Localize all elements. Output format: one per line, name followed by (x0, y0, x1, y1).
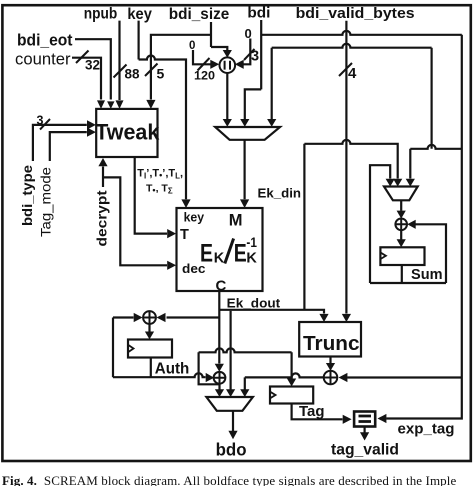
wire key to EK (hops over bdi_size wire) (139, 21, 186, 200)
svg-text:E: E (234, 239, 247, 267)
svg-text:88: 88 (125, 66, 140, 82)
wire bdi_eot to Tweak (75, 39, 111, 99)
wire Ek_dout branch down to bdo mux (230, 311, 232, 390)
slash on 0/120 wire (198, 58, 210, 71)
svg-text:-1: -1 (246, 235, 257, 250)
wire bdi_size: stub, left branch to Tweak, branch to concat (151, 22, 227, 100)
svg-text:bdi_eot: bdi_eot (17, 32, 73, 50)
svg-text:Auth: Auth (155, 360, 190, 377)
slash on bdi_type wire (40, 119, 50, 130)
Tweak box (96, 109, 157, 157)
wire comparator output to tag_valid (364, 427, 366, 433)
svg-text:K: K (246, 251, 257, 267)
svg-text:key: key (184, 211, 205, 225)
wire right vertical (exp_tag) down to comparator and to xor X3 (347, 35, 462, 419)
register Tag (270, 387, 313, 404)
wire decrypt up into Tweak bottom (102, 167, 104, 188)
svg-text:Tweak: Tweak (95, 120, 160, 145)
slash on npub wire (114, 65, 127, 78)
svg-text:Fig. 4. SCREAM block diagram.: Fig. 4. SCREAM block diagram. All boldfa… (2, 473, 456, 486)
Trunc box (299, 322, 361, 357)
wire decrypt branch to EK dec input (103, 177, 167, 265)
xor X3 (324, 371, 338, 385)
wire bdi_valid_bytes horizontal distribution (272, 44, 432, 149)
wire bdo mux output (232, 411, 234, 431)
slash on counter wire (76, 51, 89, 64)
svg-text:E: E (200, 239, 213, 267)
svg-text:tag_valid: tag_valid (331, 441, 399, 458)
svg-text:Trunc: Trunc (303, 333, 360, 355)
svg-text:bdi: bdi (247, 5, 270, 22)
xor X1 (auth) (143, 311, 156, 324)
wire EK output C down to xor X2 (218, 292, 220, 364)
svg-text:120: 120 (194, 69, 215, 83)
wire Auth register output and bottom line to xor X2 (hops vertical) (113, 358, 206, 378)
svg-text:T: T (180, 227, 189, 243)
mux M1 (Ek_din select) (215, 127, 280, 140)
wire constant0 left into concat (193, 50, 211, 64)
svg-text:bdi_size: bdi_size (169, 6, 230, 23)
wire xor X3 output left to bdo mux (hops Tag input wire) (245, 373, 324, 389)
wire concat output to mux M1 (226, 73, 228, 119)
wire bdi_type into Tweak (33, 125, 87, 161)
wire Sum feedback up to Sum mux input 1 (370, 165, 390, 283)
slash on bdi_valid_bytes wire (339, 63, 352, 76)
wire Ek_dout horizontal (219, 310, 324, 314)
xor X4 (395, 219, 407, 231)
svg-text:Sum: Sum (411, 267, 443, 283)
wire Trunc output to xor X3 (329, 357, 331, 364)
wire C branch to xor X1 (auth xor) (167, 316, 220, 318)
mux M3 (sum select) (384, 187, 418, 201)
register Auth (128, 340, 172, 358)
concatenation node circle (220, 57, 236, 73)
svg-text:32: 32 (85, 57, 100, 73)
wire counter to Tweak (72, 58, 101, 100)
wire mux M1 output to EK input M (244, 140, 246, 199)
mux M2 (bdo select) (206, 397, 253, 411)
svg-text:counter: counter (15, 51, 71, 69)
wire bdi: stub, right branch, branch to mux M1 (245, 20, 462, 119)
wire Tweak output T to EK (135, 157, 167, 234)
xor X2 (214, 372, 226, 384)
wire xor X2 output to bdo mux and tap to Tag register (199, 348, 292, 389)
comparator = box (354, 412, 375, 427)
wire Sum register output feedback loop (370, 224, 446, 283)
EK block (177, 208, 263, 291)
svg-text:key: key (127, 6, 152, 23)
svg-text:bdi_valid_bytes: bdi_valid_bytes (296, 5, 415, 22)
wire Tag_mode into Tweak (50, 132, 87, 161)
wire short horizontal to Sum mux input 3 (410, 145, 462, 179)
register Sum (380, 247, 424, 265)
wire Ek_dout up and right to Sum mux input 2 (hops bvb wire) (304, 140, 397, 310)
wire constant0 right into concat (244, 39, 251, 65)
svg-text:K: K (214, 251, 225, 267)
svg-text:exp_tag: exp_tag (398, 422, 455, 438)
wire xor X1 to Auth register (148, 324, 150, 332)
svg-text:C: C (216, 277, 227, 294)
slash on bdi_size wire (145, 64, 158, 77)
svg-text:Tag_mode: Tag_mode (39, 167, 54, 237)
svg-text:decrypt: decrypt (95, 190, 110, 247)
svg-text:bdo: bdo (216, 439, 247, 459)
svg-text:Tag: Tag (299, 404, 325, 420)
svg-text:Ek_din: Ek_din (258, 186, 302, 201)
svg-text:bdi_type: bdi_type (20, 164, 35, 226)
svg-text:Ek_dout: Ek_dout (227, 296, 281, 311)
svg-text:npub: npub (84, 6, 118, 23)
wire auth feedback left side (113, 318, 134, 378)
wire Tag register output to comparator (292, 404, 343, 420)
svg-text:5: 5 (157, 66, 165, 82)
wire npub to Tweak (118, 21, 120, 100)
wire sum mux output to xor X4 (400, 201, 402, 211)
slash on 0/3 wire (244, 49, 255, 60)
wire xor X4 output to Sum register (400, 230, 402, 239)
wire bdi_valid_bytes stub down to Trunc (345, 21, 347, 314)
svg-text:M: M (229, 212, 243, 230)
svg-text:4: 4 (348, 65, 357, 82)
